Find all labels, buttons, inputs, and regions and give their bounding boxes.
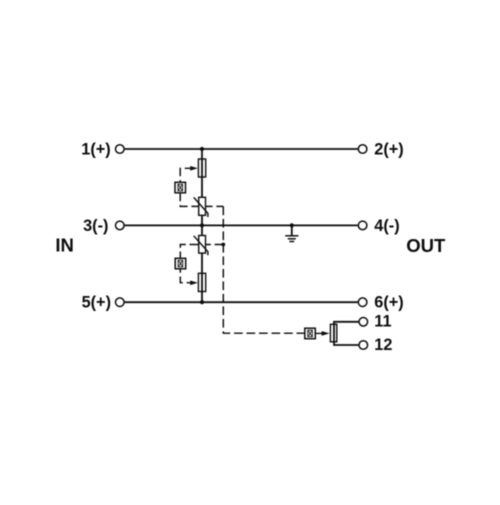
svg-text:OUT: OUT — [406, 235, 446, 256]
svg-text:3(-): 3(-) — [83, 217, 108, 235]
svg-text:12: 12 — [374, 336, 392, 354]
svg-text:1(+): 1(+) — [81, 140, 110, 158]
svg-text:2(+): 2(+) — [374, 140, 403, 158]
svg-text:IN: IN — [55, 235, 74, 256]
svg-text:4(-): 4(-) — [374, 217, 399, 235]
svg-text:6(+): 6(+) — [374, 293, 403, 311]
svg-text:5(+): 5(+) — [82, 293, 111, 311]
svg-text:11: 11 — [374, 313, 391, 331]
